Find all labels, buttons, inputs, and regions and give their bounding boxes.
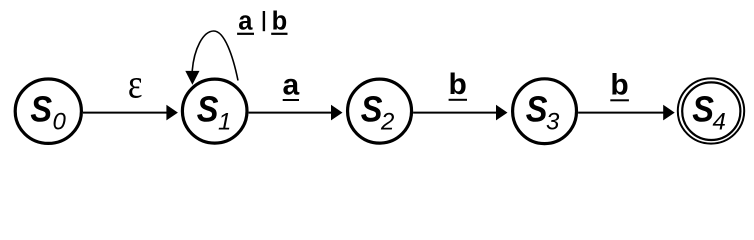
svg-text:2: 2 bbox=[380, 109, 394, 136]
svg-text:0: 0 bbox=[53, 109, 67, 136]
svg-text:S: S bbox=[526, 90, 548, 130]
svg-text:ε: ε bbox=[128, 62, 143, 107]
svg-text:a: a bbox=[282, 69, 299, 102]
svg-text:S: S bbox=[361, 90, 383, 130]
svg-text:S: S bbox=[692, 90, 714, 130]
svg-text:b: b bbox=[449, 68, 467, 101]
svg-text:b: b bbox=[610, 68, 628, 101]
svg-text:b: b bbox=[272, 8, 288, 36]
svg-text:S: S bbox=[197, 90, 219, 130]
svg-text:3: 3 bbox=[546, 109, 560, 136]
svg-text:a: a bbox=[238, 8, 253, 36]
svg-text:1: 1 bbox=[218, 109, 231, 136]
svg-text:4: 4 bbox=[713, 109, 726, 136]
svg-text:S: S bbox=[30, 90, 52, 130]
